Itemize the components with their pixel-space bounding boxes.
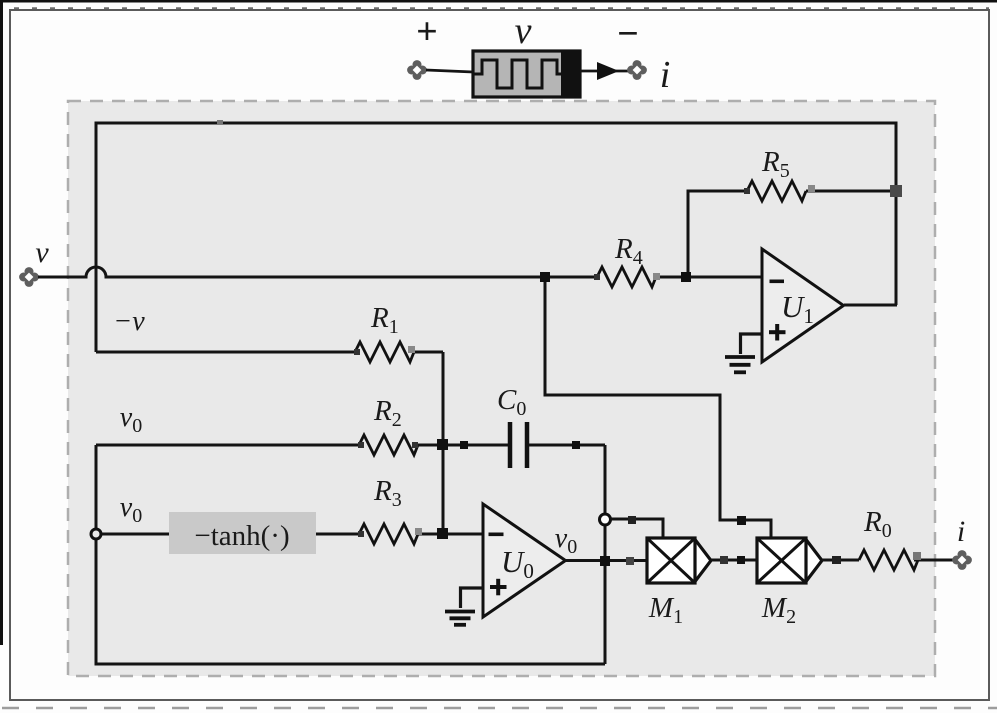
wire R2 right lead	[418, 444, 443, 447]
wire vertical summing node	[442, 352, 445, 534]
junction R4 right	[681, 272, 691, 282]
junction R3 node	[437, 528, 448, 539]
pin dot R2 right	[412, 442, 418, 448]
outer left black strip	[0, 0, 3, 645]
wire bottom return	[95, 663, 606, 666]
pin dot M2 out	[832, 556, 841, 564]
wire tanh to R3	[316, 533, 359, 536]
wire -v horizontal	[96, 351, 355, 354]
memristor body	[473, 51, 580, 97]
pin dot R5 left	[744, 188, 750, 194]
pin dot U0 out	[626, 557, 634, 565]
pin dot C0 right	[572, 441, 580, 449]
pin dot R4 left	[594, 274, 600, 280]
svg-text:+: +	[416, 11, 438, 53]
wire branch to M1 top	[611, 519, 663, 540]
junction R5 right vertical	[890, 185, 902, 197]
resistor R5	[747, 181, 806, 201]
pin dot M1 branch	[628, 516, 636, 524]
tanh block	[169, 512, 316, 554]
resistor R0	[859, 550, 918, 570]
wire M2 to R0	[822, 559, 859, 562]
wire left vertical v0	[95, 445, 98, 664]
svg-text:−v: −v	[113, 306, 145, 337]
pin dot R2 left	[358, 442, 364, 448]
wire v0 to tanh	[96, 533, 169, 536]
resistor R3	[359, 524, 418, 544]
junction R2 node	[437, 439, 448, 450]
wire M1 to M2	[711, 559, 757, 562]
resistor R1	[355, 342, 414, 362]
svg-text:i: i	[957, 515, 965, 548]
svg-text:−tanh(·): −tanh(·)	[194, 520, 289, 552]
wire R5 right lead	[806, 190, 896, 193]
ground (U1)	[725, 357, 755, 372]
pin dot R0 right	[913, 552, 921, 560]
pin dot R1 right	[408, 346, 415, 353]
dashed emulator box	[68, 101, 935, 676]
ground (U0)	[445, 612, 475, 625]
wire U0 output to M1	[565, 559, 648, 562]
terminal v (input port)	[19, 267, 39, 287]
capacitor C0	[510, 422, 527, 468]
node v0 on left vertical	[91, 529, 101, 539]
wire C0 right lead	[529, 444, 605, 447]
wire right vertical to U1 output	[895, 122, 898, 306]
pin dot R3 left	[358, 531, 364, 537]
bottom outside dashed line	[2, 707, 997, 710]
terminal - (right port of memristor)	[627, 60, 647, 80]
node circle on x605 branch	[600, 514, 611, 525]
wire R3 right lead to U0	[418, 533, 483, 536]
wire top horizontal	[95, 122, 898, 125]
wire v0 upper horizontal	[96, 444, 359, 447]
wire memristor right lead	[580, 70, 633, 73]
wire U1 output	[844, 304, 897, 307]
current arrow	[597, 62, 619, 80]
wire node A to M2 top	[545, 277, 771, 540]
wire R0 to i terminal	[914, 559, 955, 562]
tick on top wire	[217, 120, 223, 124]
wire left vertical (inverter branch)	[95, 122, 98, 353]
resistor R4	[597, 267, 656, 287]
wire U1 + input to ground	[741, 334, 763, 354]
junction node A	[540, 272, 550, 282]
svg-text:i: i	[660, 54, 671, 96]
wire R1 right lead	[414, 351, 443, 354]
wire feedback vertical x605	[604, 445, 607, 664]
pin dot R5 right	[808, 185, 815, 192]
wire U0 + input to ground	[461, 588, 484, 608]
pin dot M1-M2 a	[720, 556, 728, 564]
junction M2 top branch	[737, 516, 746, 525]
svg-text:v: v	[515, 10, 532, 52]
wire main v line with hop	[38, 267, 597, 277]
wire memristor left lead	[426, 70, 473, 72]
top dotted tick line	[14, 7, 989, 9]
outer top black line	[0, 0, 997, 3]
terminal + (left port of memristor)	[407, 60, 427, 80]
pin dot R1 left	[354, 349, 360, 355]
junction U0 output	[600, 556, 610, 566]
terminal i (output port)	[952, 550, 972, 570]
svg-text:v: v	[35, 236, 49, 269]
wire R5 left lead down to v line	[688, 191, 747, 277]
svg-text:−: −	[617, 13, 639, 55]
pin dot R4 right	[653, 273, 660, 280]
pin dot C0 left	[460, 441, 468, 449]
wire C0 left lead	[443, 444, 508, 447]
resistor R2	[359, 435, 418, 455]
wire v line right of R4	[656, 276, 762, 279]
pin dot R3 right	[415, 528, 422, 535]
pin dot M1-M2 b	[737, 556, 745, 564]
